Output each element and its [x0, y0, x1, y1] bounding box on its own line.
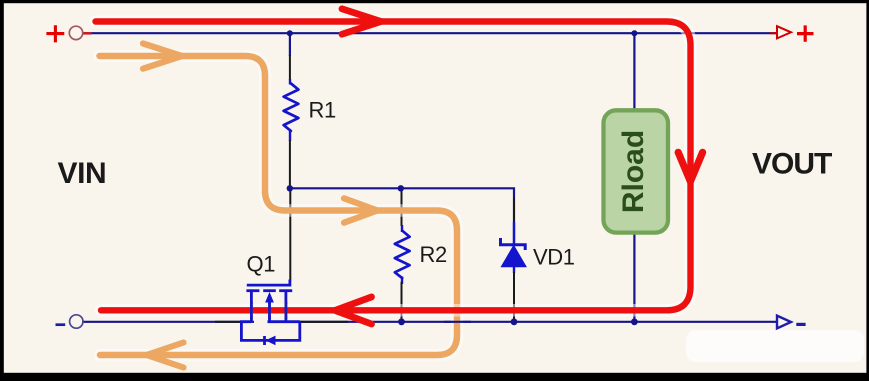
orange current path [100, 56, 458, 355]
wire bottom rail black segment left [215, 321, 251, 323]
wire vertical R1 top [289, 33, 291, 56]
terminal arrow top-right [777, 26, 791, 38]
resistor R2 [395, 231, 410, 279]
transistor Q1 (MOSFET with body diode) [241, 280, 299, 346]
terminal arrow bottom-right [777, 316, 791, 329]
transistor Q1 legs over red [250, 302, 253, 319]
wire bottom rail left segment [82, 321, 254, 323]
node mid R2 [398, 185, 404, 191]
wire vertical gate [289, 188, 291, 280]
node bottom Rload [631, 318, 638, 325]
wire vertical VD1 bottom [513, 267, 515, 273]
wire top-left terminal stub [83, 32, 92, 34]
red arrow top [342, 9, 381, 34]
wire top rail [82, 32, 776, 34]
node mid R1 [287, 185, 293, 191]
svg-text:Q1: Q1 [247, 252, 276, 277]
red arrow right [678, 152, 702, 181]
border frame [0, 373, 869, 381]
wire top-right red stub [770, 32, 777, 34]
wire bottom rail black segment right [300, 321, 348, 323]
terminal circle top-left [69, 26, 82, 39]
node bottom R2 [398, 318, 405, 325]
svg-text:Rload: Rload [617, 130, 650, 213]
wire vertical Rload bottom [633, 233, 635, 322]
Q1 body diode arrow [266, 336, 276, 346]
wire mid rail [290, 188, 514, 244]
node bottom VD1 [511, 318, 518, 325]
wire bottom rail right segment [268, 321, 777, 323]
terminal circle bottom-left [70, 315, 83, 328]
wire vertical R2 top [401, 188, 403, 226]
red current path [96, 22, 691, 311]
wire vertical VD1 top black segment [513, 198, 515, 224]
svg-text:R1: R1 [309, 98, 336, 123]
node top Rload [631, 30, 637, 36]
resistor Rload [604, 110, 669, 232]
terminal plus top-right [797, 25, 814, 41]
Q1 source arrow [265, 292, 274, 303]
watermark patch [686, 330, 864, 362]
orange arrow top [143, 44, 182, 69]
orange path halo [100, 56, 458, 355]
wire bottom rail over orange crossing [444, 321, 471, 323]
orange arrow bottom [147, 343, 184, 368]
terminal minus bottom-left [56, 323, 66, 326]
svg-text:VIN: VIN [58, 157, 107, 190]
resistor R1 [284, 83, 299, 130]
svg-text:VD1: VD1 [533, 245, 575, 270]
red arrow bottom [335, 297, 372, 324]
red path halo [96, 22, 691, 311]
terminal minus bottom-right [796, 323, 805, 326]
node top R1 [287, 30, 293, 36]
svg-text:R2: R2 [420, 242, 447, 267]
diode VD1 (zener) [501, 222, 527, 267]
orange arrow mid [344, 198, 378, 222]
svg-text:VOUT: VOUT [752, 148, 832, 181]
wire vertical R2 bottom [401, 277, 403, 285]
wire vertical R1 bottom [289, 130, 291, 141]
wire vertical Rload top [633, 33, 635, 110]
terminal plus top-left [46, 25, 64, 42]
